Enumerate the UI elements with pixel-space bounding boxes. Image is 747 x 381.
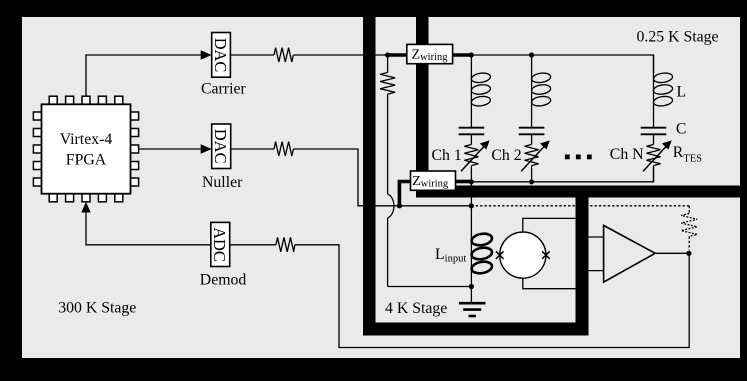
svg-text:C: C: [676, 121, 687, 138]
svg-text:Ch 1: Ch 1: [432, 147, 462, 164]
svg-text:DAC: DAC: [211, 129, 230, 164]
svg-text:0.25 K Stage: 0.25 K Stage: [637, 29, 719, 46]
svg-text:Nuller: Nuller: [202, 174, 243, 191]
svg-text:Virtex-4: Virtex-4: [60, 131, 113, 148]
svg-text:4 K Stage: 4 K Stage: [385, 300, 447, 317]
svg-text:Demod: Demod: [200, 271, 247, 288]
svg-text:300 K Stage: 300 K Stage: [58, 300, 136, 317]
svg-text:DAC: DAC: [211, 38, 230, 73]
svg-text:Ch N: Ch N: [610, 146, 644, 163]
svg-text:FPGA: FPGA: [66, 152, 107, 169]
svg-text:Carrier: Carrier: [201, 81, 246, 98]
svg-text:Ch 2: Ch 2: [491, 147, 521, 164]
svg-text:L: L: [677, 84, 687, 101]
svg-text:ADC: ADC: [210, 227, 229, 262]
